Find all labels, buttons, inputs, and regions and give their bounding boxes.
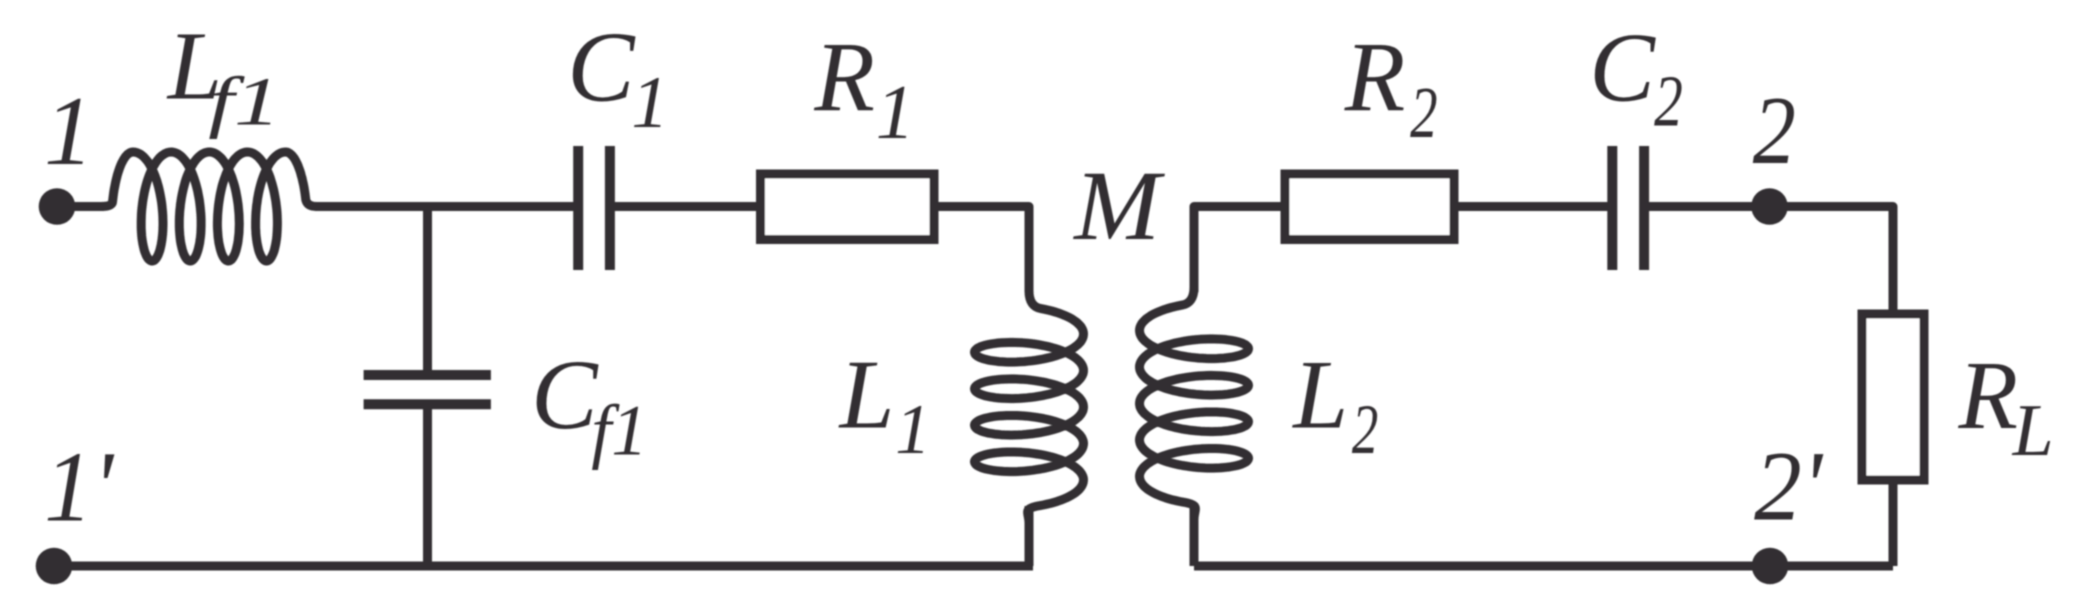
wire C1 to R1 [612, 202, 760, 211]
wire Cf1 down to bottom rail [423, 407, 432, 566]
svg-text:1: 1 [876, 69, 915, 155]
capacitor C1 [578, 146, 610, 270]
svg-text:f1: f1 [208, 63, 280, 139]
svg-text:2: 2 [1352, 389, 1378, 469]
svg-text:1: 1 [44, 77, 93, 186]
svg-text:f1: f1 [591, 391, 647, 471]
svg-text:1: 1 [631, 62, 668, 144]
capacitor C2 [1612, 146, 1644, 270]
wire R1 to L1 top lead [934, 207, 1029, 293]
resistor R2 [1285, 174, 1454, 240]
wire junction down to Cf1 [423, 207, 432, 373]
terminal node 2prime [1752, 548, 1789, 585]
inductor L1 (transformer primary) [975, 291, 1084, 523]
wire from terminal 1 to Lf1 [57, 202, 104, 211]
svg-text:C: C [1589, 13, 1656, 122]
wire L1 bottom lead [1025, 506, 1034, 566]
svg-text:L: L [838, 341, 895, 450]
wire L2 top lead to R2 [1194, 207, 1285, 293]
svg-text:2: 2 [1753, 76, 1796, 184]
terminal node 1 [39, 188, 76, 225]
wire R2 to C2 [1454, 202, 1608, 211]
svg-text:R: R [813, 23, 875, 132]
terminal node 2 [1751, 188, 1788, 225]
svg-text:L: L [1291, 341, 1348, 450]
svg-text:2: 2 [1410, 71, 1437, 152]
wire RL to bottom rail [1889, 476, 1898, 566]
svg-text:1: 1 [895, 391, 930, 469]
svg-text:M: M [1072, 151, 1165, 261]
svg-text:L: L [2012, 389, 2054, 471]
wire L2 bottom lead [1190, 506, 1199, 566]
inductor Lf1 [101, 152, 316, 261]
resistor R1 [761, 174, 935, 240]
svg-text:C: C [567, 11, 636, 123]
resistor RL (load) [1862, 314, 1924, 480]
wire C2 to terminal 2 and down to RL [1646, 207, 1893, 315]
terminal node 1prime [36, 548, 73, 585]
wire Lf1 to C1 [315, 202, 576, 211]
svg-text:C: C [531, 339, 599, 450]
inductor L2 (transformer secondary) [1140, 287, 1249, 519]
svg-text:R: R [1958, 342, 2019, 450]
bottom rail left (1prime to L1) [54, 562, 1033, 571]
bottom rail right (L2 to RL) [1194, 562, 1893, 571]
svg-text:2: 2 [1654, 61, 1683, 142]
svg-text:1': 1' [44, 432, 115, 543]
svg-text:2': 2' [1754, 432, 1824, 542]
svg-text:R: R [1344, 23, 1406, 132]
capacitor Cf1 [364, 375, 491, 404]
